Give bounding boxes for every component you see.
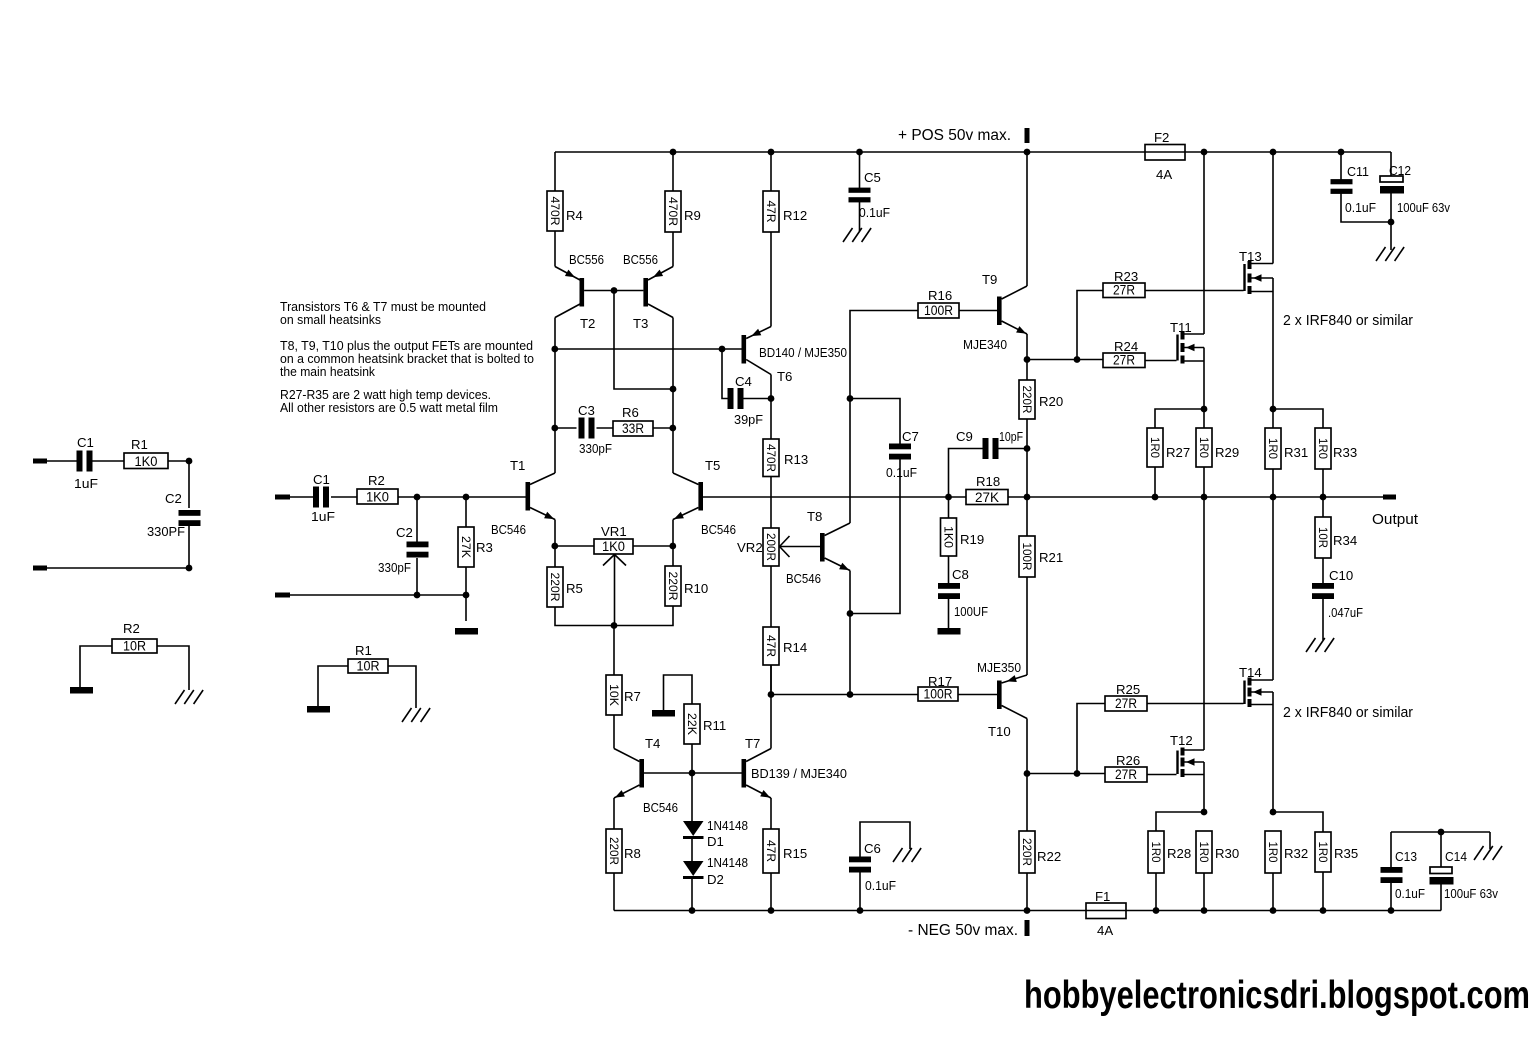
resistor R30 xyxy=(1196,831,1239,873)
wire xyxy=(770,477,772,529)
wire output net xyxy=(703,496,1383,498)
svg-text:R7: R7 xyxy=(624,689,641,704)
mosfet T11 xyxy=(1170,320,1204,364)
svg-text:- NEG 50v max.: - NEG 50v max. xyxy=(908,922,1018,939)
node xyxy=(1201,406,1208,413)
svg-text:R11: R11 xyxy=(703,718,726,733)
svg-text:R29: R29 xyxy=(1215,445,1239,460)
wire xyxy=(157,646,189,690)
svg-text:R33: R33 xyxy=(1333,445,1357,460)
resistor R2 xyxy=(112,621,157,654)
wire xyxy=(1026,419,1028,536)
svg-text:T11: T11 xyxy=(1170,320,1192,335)
svg-text:C12: C12 xyxy=(1389,163,1411,178)
transistor T8 xyxy=(786,509,850,586)
wire xyxy=(554,152,556,267)
node xyxy=(1074,770,1081,777)
wire xyxy=(1027,359,1103,361)
wire xyxy=(1273,872,1323,911)
resistor R29 xyxy=(1196,428,1239,467)
node xyxy=(1270,809,1277,816)
resistor R10 xyxy=(665,546,708,606)
wire xyxy=(1156,812,1204,831)
diode D2 xyxy=(683,855,748,887)
svg-text:27R: 27R xyxy=(1113,283,1135,298)
svg-text:220R: 220R xyxy=(1020,386,1034,414)
input stub xyxy=(275,593,290,598)
wire xyxy=(1155,409,1204,428)
wire xyxy=(1273,812,1323,832)
resistor R1 xyxy=(348,643,388,674)
wire xyxy=(1155,467,1204,497)
capacitor C2 xyxy=(147,491,201,539)
wire xyxy=(80,646,112,687)
wire xyxy=(47,526,189,568)
svg-text:D2: D2 xyxy=(707,872,724,887)
svg-text:R9: R9 xyxy=(684,208,701,223)
svg-text:MJE350: MJE350 xyxy=(977,660,1021,675)
svg-text:R34: R34 xyxy=(1333,533,1357,548)
wire xyxy=(664,675,693,711)
wire xyxy=(555,520,673,547)
svg-text:T1: T1 xyxy=(510,458,525,473)
node xyxy=(414,494,470,501)
svg-text:MJE340: MJE340 xyxy=(963,337,1007,352)
wire xyxy=(290,496,526,498)
svg-text:C13: C13 xyxy=(1395,849,1417,864)
capacitor C2 xyxy=(378,525,429,575)
node xyxy=(945,494,952,501)
svg-text:4A: 4A xyxy=(1097,923,1113,938)
svg-text:R18: R18 xyxy=(976,474,1000,489)
svg-text:1N4148: 1N4148 xyxy=(707,855,748,870)
label -NEG xyxy=(908,922,1018,939)
capacitor C6 xyxy=(849,822,910,893)
svg-text:2 x IRF840 or similar: 2 x IRF840 or similar xyxy=(1283,705,1413,721)
svg-text:22K: 22K xyxy=(685,713,699,735)
svg-text:BC546: BC546 xyxy=(643,800,678,815)
ground xyxy=(1376,247,1404,261)
svg-text:10R: 10R xyxy=(123,639,146,654)
node xyxy=(689,770,696,777)
wire xyxy=(1027,773,1105,775)
capacitor C10 xyxy=(1312,568,1363,620)
wire xyxy=(672,152,674,267)
wire xyxy=(691,744,693,773)
wire base T2-T3 xyxy=(584,290,643,292)
node xyxy=(186,565,193,572)
wire R24 to T11 gate xyxy=(1145,360,1177,362)
svg-text:T8: T8 xyxy=(807,509,822,524)
resistor R20 xyxy=(1019,380,1063,419)
svg-text:1R0: 1R0 xyxy=(1266,842,1280,863)
wire xyxy=(465,497,467,527)
svg-text:27R: 27R xyxy=(1113,353,1135,368)
svg-text:220R: 220R xyxy=(607,837,621,865)
resistor R33 xyxy=(1315,428,1357,469)
fuse F2 xyxy=(1145,130,1185,182)
svg-text:C10: C10 xyxy=(1329,568,1353,583)
svg-text:1K0: 1K0 xyxy=(135,454,158,469)
svg-text:R2: R2 xyxy=(368,473,385,488)
svg-text:33R: 33R xyxy=(622,421,644,436)
svg-text:1R0: 1R0 xyxy=(1148,437,1162,458)
svg-text:100UF: 100UF xyxy=(954,604,988,619)
svg-text:27R: 27R xyxy=(1115,696,1137,711)
capacitor C1 xyxy=(74,435,98,491)
resistor R31 xyxy=(1265,428,1308,469)
wire xyxy=(613,873,615,911)
input stub xyxy=(275,495,290,500)
svg-text:10K: 10K xyxy=(607,684,621,706)
svg-text:BC546: BC546 xyxy=(491,522,526,537)
wire xyxy=(770,665,772,695)
svg-text:C14: C14 xyxy=(1445,849,1467,864)
wire xyxy=(1273,469,1323,497)
node xyxy=(1024,770,1031,777)
resistor R35 xyxy=(1315,832,1358,872)
wire xyxy=(290,567,466,621)
svg-text:1R0: 1R0 xyxy=(1266,438,1280,459)
transistor T3 xyxy=(623,252,673,331)
node xyxy=(719,346,726,353)
svg-text:R5: R5 xyxy=(566,581,583,596)
svg-text:R16: R16 xyxy=(928,288,952,303)
svg-text:10R: 10R xyxy=(1316,527,1330,548)
resistor R3 xyxy=(458,527,493,567)
capacitor C5 xyxy=(849,170,891,220)
resistor R27 xyxy=(1147,428,1190,467)
node xyxy=(1201,809,1208,816)
wire xyxy=(948,497,950,518)
svg-text:R17: R17 xyxy=(928,674,952,689)
transistor T4 xyxy=(614,736,678,815)
svg-text:330pF: 330pF xyxy=(579,441,612,456)
node xyxy=(1388,219,1395,226)
wire xyxy=(1322,558,1324,585)
wire xyxy=(1340,152,1342,181)
wire xyxy=(1077,291,1103,360)
svg-text:R19: R19 xyxy=(960,532,984,547)
resistor R11 xyxy=(684,704,726,744)
svg-text:470R: 470R xyxy=(764,444,778,472)
wire R23 to T13 gate xyxy=(1145,290,1244,292)
svg-text:on small heatsinks: on small heatsinks xyxy=(280,312,381,327)
node xyxy=(1152,494,1327,501)
transistor T2 xyxy=(555,252,604,331)
svg-text:27K: 27K xyxy=(459,536,473,558)
svg-text:BD140 / MJE350: BD140 / MJE350 xyxy=(759,345,847,360)
svg-text:R28: R28 xyxy=(1167,846,1191,861)
node xyxy=(186,458,193,465)
resistor R28 xyxy=(1148,831,1191,873)
diode D1 xyxy=(683,818,748,849)
svg-text:0.1uF: 0.1uF xyxy=(865,878,896,893)
resistor R26 xyxy=(1105,753,1147,782)
svg-text:470R: 470R xyxy=(666,197,680,226)
svg-text:100uF 63v: 100uF 63v xyxy=(1444,886,1498,901)
svg-text:BC546: BC546 xyxy=(701,522,736,537)
svg-text:R23: R23 xyxy=(1114,269,1138,284)
node xyxy=(670,386,677,393)
svg-text:R21: R21 xyxy=(1039,550,1063,565)
svg-text:1uF: 1uF xyxy=(311,509,335,524)
svg-text:R35: R35 xyxy=(1334,846,1358,861)
svg-text:T13: T13 xyxy=(1239,249,1262,264)
ground xyxy=(175,690,203,704)
svg-text:27R: 27R xyxy=(1115,767,1137,782)
wire xyxy=(1156,873,1204,911)
wire xyxy=(1273,409,1323,428)
capacitor C12 xyxy=(1380,152,1450,215)
wire xyxy=(849,571,851,695)
svg-text:C1: C1 xyxy=(313,472,330,487)
svg-text:1uF: 1uF xyxy=(74,476,98,491)
wire xyxy=(770,665,772,695)
svg-text:C9: C9 xyxy=(956,429,973,444)
svg-text:T7: T7 xyxy=(745,736,760,751)
ground xyxy=(1306,638,1334,652)
resistor R9 xyxy=(665,191,701,232)
svg-text:R13: R13 xyxy=(784,452,808,467)
terminal +POS xyxy=(1025,128,1030,143)
resistor R1 xyxy=(124,437,168,469)
svg-text:47R: 47R xyxy=(764,635,778,657)
svg-text:F1: F1 xyxy=(1095,889,1110,904)
wire xyxy=(1272,152,1274,428)
svg-text:D1: D1 xyxy=(707,834,724,849)
wire xyxy=(613,715,615,749)
svg-text:All other resistors are 0.5 wa: All other resistors are 0.5 watt metal f… xyxy=(280,400,498,415)
resistor R7 xyxy=(606,675,641,715)
svg-text:1R0: 1R0 xyxy=(1316,438,1330,459)
svg-text:1N4148: 1N4148 xyxy=(707,818,748,833)
svg-text:1K0: 1K0 xyxy=(602,539,625,554)
node xyxy=(414,592,470,599)
svg-text:R27: R27 xyxy=(1166,445,1190,460)
node xyxy=(1074,356,1081,363)
svg-text:T2: T2 xyxy=(580,316,595,331)
wire xyxy=(691,839,693,861)
resistor R34 xyxy=(1315,517,1357,558)
resistor R21 xyxy=(1019,536,1063,577)
wire xyxy=(1272,497,1274,812)
wire xyxy=(1077,704,1105,774)
svg-text:Output: Output xyxy=(1372,511,1419,528)
svg-text:10R: 10R xyxy=(357,659,380,674)
svg-text:R26: R26 xyxy=(1116,753,1140,768)
capacitor C8 xyxy=(938,567,988,619)
ground xyxy=(843,228,871,242)
resistor R22 xyxy=(1019,831,1061,873)
svg-text:220R: 220R xyxy=(1020,838,1034,866)
svg-text:0.1uF: 0.1uF xyxy=(1345,200,1376,215)
wire xyxy=(1341,192,1391,222)
wire xyxy=(1026,577,1028,675)
svg-text:1K0: 1K0 xyxy=(942,526,956,548)
wire xyxy=(614,291,673,390)
svg-text:R14: R14 xyxy=(783,640,807,655)
svg-text:1R0: 1R0 xyxy=(1197,842,1211,863)
wire R26 to T12 gate xyxy=(1147,774,1177,776)
svg-text:C1: C1 xyxy=(77,435,94,450)
wire xyxy=(613,626,615,676)
svg-text:1R0: 1R0 xyxy=(1197,437,1211,458)
svg-text:R6: R6 xyxy=(622,405,639,420)
svg-text:220R: 220R xyxy=(548,573,562,602)
wire xyxy=(47,461,189,508)
transistor T5 xyxy=(673,458,736,537)
svg-text:C2: C2 xyxy=(396,525,413,540)
node xyxy=(611,622,618,629)
svg-text:R12: R12 xyxy=(783,208,807,223)
capacitor C4 xyxy=(722,349,771,427)
svg-text:T6: T6 xyxy=(777,369,792,384)
resistor R8 xyxy=(606,829,641,873)
wire xyxy=(388,666,416,708)
svg-text:C6: C6 xyxy=(864,841,881,856)
resistor R12 xyxy=(763,191,807,232)
resistor R13 xyxy=(763,399,808,477)
capacitor C13 xyxy=(1381,832,1426,911)
node xyxy=(1270,406,1277,413)
svg-text:10pF: 10pF xyxy=(999,429,1023,444)
wire xyxy=(1026,152,1028,360)
label Output xyxy=(1372,511,1419,528)
svg-text:T10: T10 xyxy=(988,724,1011,739)
svg-text:R8: R8 xyxy=(624,846,641,861)
svg-text:1R0: 1R0 xyxy=(1316,842,1330,863)
wire xyxy=(555,318,673,474)
svg-text:BC556: BC556 xyxy=(569,252,604,267)
svg-text:0.1uF: 0.1uF xyxy=(859,205,890,220)
svg-text:R32: R32 xyxy=(1284,846,1308,861)
svg-text:C3: C3 xyxy=(578,403,595,418)
resistor R4 xyxy=(547,191,583,231)
transistor T6 xyxy=(742,327,848,385)
capacitor C1 xyxy=(311,472,335,524)
potentiometer VR1 xyxy=(594,524,633,626)
svg-text:T14: T14 xyxy=(1239,665,1262,680)
output stub xyxy=(1383,495,1396,500)
wire xyxy=(958,694,997,696)
svg-text:27K: 27K xyxy=(975,490,999,505)
potentiometer VR2 xyxy=(737,528,790,566)
resistor R19 xyxy=(941,518,985,556)
transistor T1 xyxy=(491,458,555,537)
wire xyxy=(770,152,772,327)
wire +POS rail xyxy=(555,151,1391,153)
node xyxy=(670,149,1345,156)
svg-text:47R: 47R xyxy=(764,201,778,223)
wire xyxy=(1026,360,1028,381)
svg-text:47R: 47R xyxy=(764,840,778,862)
wire xyxy=(555,545,673,547)
node xyxy=(1438,829,1445,836)
svg-text:0.1uF: 0.1uF xyxy=(1395,886,1425,901)
svg-text:VR2: VR2 xyxy=(737,540,763,555)
svg-text:+ POS 50v max.: + POS 50v max. xyxy=(898,127,1011,144)
resistor R2 xyxy=(357,473,398,505)
svg-text:VR1: VR1 xyxy=(601,524,627,539)
ground xyxy=(652,710,675,717)
wire xyxy=(770,695,772,749)
svg-text:39pF: 39pF xyxy=(734,412,763,427)
mosfet T13 xyxy=(1239,249,1273,294)
transistor T9 xyxy=(963,272,1027,352)
wire xyxy=(555,606,673,626)
wire xyxy=(771,694,918,696)
wire xyxy=(1026,774,1028,832)
svg-text:R31: R31 xyxy=(1284,445,1308,460)
svg-text:R15: R15 xyxy=(783,846,807,861)
label 2xIRF840 lower xyxy=(1283,705,1413,721)
svg-text:R4: R4 xyxy=(566,208,583,223)
ground xyxy=(1474,846,1502,860)
wire xyxy=(1203,152,1205,428)
svg-text:R25: R25 xyxy=(1116,682,1140,697)
svg-text:R1: R1 xyxy=(131,437,148,452)
svg-text:R1: R1 xyxy=(355,643,372,658)
svg-text:R20: R20 xyxy=(1039,394,1063,409)
svg-text:330pF: 330pF xyxy=(378,560,411,575)
svg-text:.047uF: .047uF xyxy=(1328,605,1363,620)
resistor R23 xyxy=(1103,269,1145,298)
node xyxy=(1024,356,1031,363)
svg-text:T9: T9 xyxy=(982,272,997,287)
svg-text:470R: 470R xyxy=(548,197,562,226)
wire R25 to T14 gate xyxy=(1147,703,1244,705)
transistor T7 xyxy=(742,736,848,798)
wire xyxy=(691,773,693,821)
wire xyxy=(770,375,772,399)
wire xyxy=(1026,873,1028,911)
resistor R6 xyxy=(613,405,653,436)
svg-text:C8: C8 xyxy=(952,567,969,582)
ground xyxy=(455,628,478,635)
resistor R25 xyxy=(1105,682,1147,711)
svg-text:100R: 100R xyxy=(924,303,953,318)
svg-text:R3: R3 xyxy=(476,540,493,555)
svg-text:C7: C7 xyxy=(902,429,919,444)
svg-text:R22: R22 xyxy=(1037,849,1061,864)
resistor R17 xyxy=(918,674,958,702)
wire VR2 wiper to T8 xyxy=(780,546,821,548)
node xyxy=(847,395,854,402)
fuse F1 xyxy=(1086,889,1126,938)
svg-text:R24: R24 xyxy=(1114,339,1138,354)
wire xyxy=(1026,719,1028,774)
svg-text:100uF 63v: 100uF 63v xyxy=(1397,200,1450,215)
svg-text:BC546: BC546 xyxy=(786,571,821,586)
wire xyxy=(1322,497,1324,517)
svg-text:T5: T5 xyxy=(705,458,720,473)
svg-text:R2: R2 xyxy=(123,621,140,636)
svg-text:hobbyelectronicsdri.blogspot.c: hobbyelectronicsdri.blogspot.com xyxy=(1024,974,1530,1017)
capacitor C14 xyxy=(1430,832,1499,911)
mosfet T14 xyxy=(1239,665,1273,707)
resistor R14 xyxy=(763,627,807,665)
svg-text:4A: 4A xyxy=(1156,167,1172,182)
svg-text:T3: T3 xyxy=(633,316,648,331)
wire xyxy=(1322,597,1324,640)
input stub xyxy=(33,459,47,464)
node xyxy=(768,691,854,698)
ground xyxy=(893,848,921,862)
svg-text:1K0: 1K0 xyxy=(366,490,389,505)
svg-text:2 x IRF840 or similar: 2 x IRF840 or similar xyxy=(1283,313,1413,329)
wire xyxy=(614,798,771,829)
